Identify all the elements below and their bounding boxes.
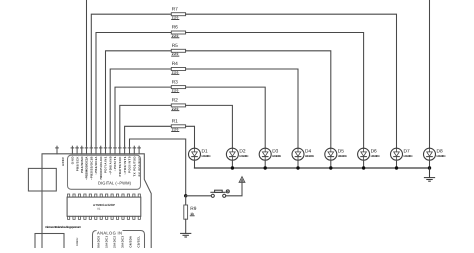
pin ~PB3/MOSI/OC2A (85, 146, 88, 154)
svg-text:LED-RED: LED-RED (305, 154, 314, 158)
svg-text:~PB1/OC1A: ~PB1/OC1A (94, 156, 98, 175)
wire button to terminal A (226, 182, 242, 196)
pin RX PD0/RXD (138, 146, 141, 154)
svg-text:PC4/ADC4/SDA: PC4/ADC4/SDA (129, 235, 133, 248)
svg-text:A: A (240, 178, 243, 183)
svg-text:R9: R9 (190, 206, 196, 212)
LED D7 (LED-RED) (391, 148, 413, 160)
wire from Arduino pin to R3 (115, 87, 171, 146)
wire R4 to LED D4 (186, 69, 298, 148)
junction at D3 on bus (264, 166, 267, 169)
svg-text:DIGITAL (~PWM): DIGITAL (~PWM) (98, 180, 132, 185)
wire LED D4 cathode to bus (297, 160, 299, 168)
junction at D5 on bus (329, 166, 332, 169)
svg-text:PC5/ADC5/SCL: PC5/ADC5/SCL (137, 236, 141, 248)
wire R9 to ground (185, 219, 187, 233)
svg-text:16MHz: 16MHz (76, 237, 79, 246)
LED D3 (LED-RED) (259, 148, 281, 160)
pin ~PD3/INT1 (123, 146, 126, 154)
pin PD2/INT0 (128, 146, 131, 154)
svg-text:ANALOG IN: ANALOG IN (97, 231, 122, 236)
resistor R2 (171, 98, 185, 111)
svg-text:PD7/AIN1: PD7/AIN1 (104, 156, 108, 173)
LED D5 (LED-RED) (325, 148, 347, 160)
wire LED D5 cathode to bus (330, 160, 332, 168)
svg-text:220: 220 (172, 89, 179, 93)
svg-text:LED-RED: LED-RED (338, 154, 347, 158)
svg-text:PB4/MISO: PB4/MISO (80, 156, 84, 173)
wire R2 to LED D2 (186, 105, 233, 148)
svg-text:PB0/ICP1/CLKO: PB0/ICP1/CLKO (99, 156, 103, 180)
pin ~PD6/AIN0 (109, 146, 112, 154)
wire LED D6 cathode to bus (363, 160, 365, 168)
wire LED D3 cathode to bus (264, 160, 266, 168)
svg-text:LED-RED: LED-RED (371, 154, 380, 158)
ground (below R9) (181, 233, 191, 237)
ANALOG IN group box (93, 231, 145, 249)
DIGITAL (~PWM) group box (68, 155, 141, 189)
wire junction to R9 (185, 196, 187, 205)
svg-text:~PB2/SS/OC1B: ~PB2/SS/OC1B (90, 157, 94, 181)
resistor R7 (171, 6, 185, 19)
svg-text:LED-RED: LED-RED (437, 154, 446, 158)
svg-text:PD2/INT0: PD2/INT0 (128, 156, 132, 173)
IC body (67, 194, 141, 219)
svg-text:R1: R1 (172, 119, 178, 125)
wire R7 to LED D7 (186, 14, 397, 148)
svg-text:~PD5/T1: ~PD5/T1 (113, 156, 117, 171)
LED D2 (LED-RED) (226, 148, 248, 160)
svg-text:220: 220 (172, 16, 179, 20)
label DIGITAL (~PWM) (98, 180, 132, 186)
pin ~PB2/SS/OC1B (90, 146, 93, 154)
junction node (button / R9 / pin) (184, 194, 187, 197)
svg-text:PC3/ADC3: PC3/ADC3 (121, 236, 125, 248)
pin PD4/T0/XCK (119, 146, 122, 154)
svg-text:PC1/ADC1: PC1/ADC1 (105, 236, 109, 248)
svg-text:R7: R7 (172, 6, 178, 12)
terminal A (239, 177, 245, 183)
wire R8 left vertical (to pin, R8 itself above canvas) (86, 0, 88, 146)
svg-text:R2: R2 (172, 98, 178, 104)
wire LED D8 cathode to bus (429, 160, 431, 168)
wire R6 to LED D6 (186, 33, 364, 149)
svg-text:LED-RED: LED-RED (404, 154, 413, 158)
ground (bus, right end) (424, 168, 434, 181)
pin TX PD1/TXD (133, 146, 136, 154)
svg-text:GND: GND (71, 157, 75, 165)
svg-text:220: 220 (172, 70, 179, 74)
resistor R4 (171, 61, 185, 74)
svg-text:R6: R6 (172, 25, 178, 31)
wire R3 to LED D3 (186, 87, 266, 148)
USB connector (28, 168, 56, 191)
svg-text:LED-RED: LED-RED (272, 154, 281, 158)
pin ~PB1/OC1A (95, 146, 98, 154)
junction at D6 on bus (362, 166, 365, 169)
LED D1 (LED-RED) (189, 148, 211, 160)
resistor R5 (171, 43, 185, 56)
resistor R3 (171, 79, 185, 92)
svg-text:ATMEGA328P: ATMEGA328P (93, 203, 115, 207)
pin ~PD5/T1 (114, 146, 117, 154)
svg-text:PC2/ADC2: PC2/ADC2 (113, 236, 117, 248)
pin GND (71, 146, 74, 154)
junction at D2 on bus (231, 166, 234, 169)
label ANALOG IN (97, 230, 123, 236)
svg-text:220: 220 (172, 34, 179, 38)
svg-text:U1: U1 (97, 208, 101, 211)
power jack (35, 234, 64, 250)
svg-text:220: 220 (172, 107, 179, 111)
svg-text:TX PD1/TXD: TX PD1/TXD (133, 157, 137, 177)
pin AREF (56, 146, 59, 154)
resistor R1 (171, 119, 185, 132)
wire from Arduino pin to R4 (110, 69, 171, 146)
wire from Arduino pin to R5 (106, 51, 172, 146)
wire R5 to LED D5 (186, 51, 331, 148)
svg-text:PD4/T0/XCK: PD4/T0/XCK (118, 156, 122, 177)
svg-text:220: 220 (172, 128, 179, 132)
wire from Arduino pin PD2 to button node (130, 139, 186, 196)
svg-text:220: 220 (172, 52, 179, 56)
wire LED D2 cathode to bus (231, 160, 233, 168)
wire R1 to LED D1 (186, 126, 195, 148)
wire from Arduino pin to R6 (96, 33, 171, 147)
junction at D4 on bus (296, 166, 299, 169)
junction at D8 on bus (428, 166, 431, 169)
svg-text:R3: R3 (172, 79, 178, 85)
pin PB4/MISO (81, 146, 84, 154)
resistor R9 (184, 205, 197, 219)
pin PB0/ICP1/CLKO (99, 146, 102, 154)
svg-text:~PD3/INT1: ~PD3/INT1 (123, 156, 127, 175)
svg-text:PC0/ADC0: PC0/ADC0 (97, 236, 101, 248)
svg-text:R5: R5 (172, 43, 178, 49)
svg-text:~PB3/MOSI/OC2A: ~PB3/MOSI/OC2A (85, 156, 89, 180)
wire from Arduino pin to R2 (120, 105, 172, 146)
LED D4 (LED-RED) (292, 148, 314, 160)
wire from Arduino pin to R7 (91, 14, 171, 146)
svg-text:1k: 1k (190, 212, 194, 216)
svg-text:LED-RED: LED-RED (202, 154, 211, 158)
pin PD7/AIN1 (104, 146, 107, 154)
wire junction to button (186, 195, 212, 197)
LED D6 (LED-RED) (358, 148, 380, 160)
wire from Arduino pin to R1 (125, 126, 172, 146)
wire LED D7 cathode to bus (396, 160, 398, 168)
wire ground bus (195, 167, 430, 169)
svg-text:LED-RED: LED-RED (239, 154, 248, 158)
svg-text:~PD6/AIN0: ~PD6/AIN0 (108, 156, 112, 175)
Arduino Uno board outline (42, 154, 151, 248)
svg-text:R4: R4 (172, 61, 178, 67)
junction at D7 on bus (395, 166, 398, 169)
LED D8 (LED-RED) (424, 148, 446, 160)
resistor R6 (171, 25, 185, 38)
wire D8 column from off-canvas R8 (429, 0, 431, 148)
svg-text:PB5/SCK: PB5/SCK (75, 156, 79, 172)
pin PB5/SCK (76, 146, 79, 154)
svg-text:AREF: AREF (61, 157, 65, 166)
svg-text:microcontrolandos.blogspot.com: microcontrolandos.blogspot.com (45, 225, 81, 229)
pushbutton (211, 190, 229, 197)
wire LED D1 cathode to bus (194, 160, 196, 168)
